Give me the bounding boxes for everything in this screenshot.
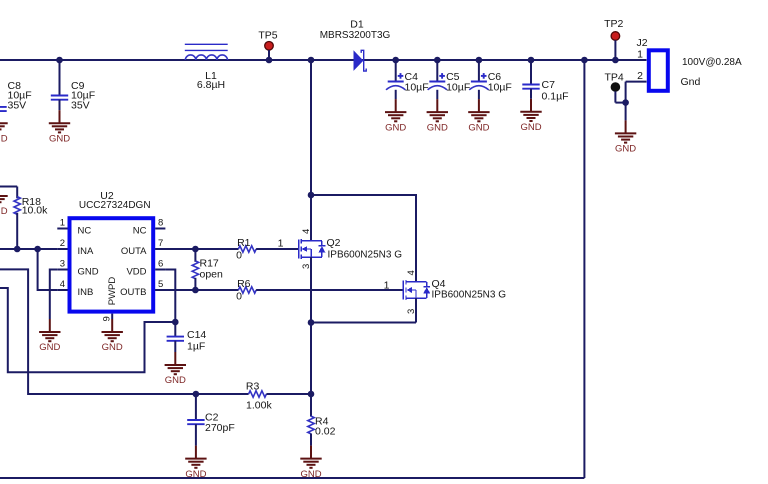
ground for C4 — [385, 99, 406, 133]
svg-text:10.0k: 10.0k — [22, 205, 48, 217]
ground for C5 — [427, 99, 448, 133]
svg-text:3: 3 — [60, 259, 65, 270]
wire R18 top to left edge — [0, 186, 17, 188]
svg-text:2: 2 — [60, 238, 65, 249]
ground for U2 pin 9 — [102, 319, 123, 353]
wire Q4 drain branch — [311, 195, 416, 282]
capacitor C2 — [187, 394, 235, 446]
capacitor C9 — [51, 60, 95, 111]
junction dot sense node — [308, 391, 315, 398]
svg-text:J2: J2 — [637, 37, 648, 49]
svg-text:0: 0 — [236, 291, 242, 303]
wire R6 to Q4 gate — [256, 289, 403, 291]
svg-text:1: 1 — [278, 238, 284, 250]
wire INA to INB — [38, 249, 58, 290]
svg-text:270pF: 270pF — [205, 422, 235, 434]
svg-text:C14: C14 — [187, 329, 206, 341]
wire VDD to left edge — [0, 288, 175, 372]
svg-text:OUTB: OUTB — [120, 287, 146, 298]
wire Q2 source — [310, 257, 312, 323]
wire source rail — [311, 322, 416, 324]
svg-text:1: 1 — [384, 280, 390, 292]
svg-text:6: 6 — [158, 259, 163, 270]
junction dot source rail — [308, 319, 315, 326]
svg-text:2: 2 — [637, 70, 643, 82]
svg-text:4: 4 — [60, 279, 65, 290]
transistor Q2 — [299, 229, 403, 269]
wire feedback from left edge — [0, 269, 249, 394]
svg-text:OUTA: OUTA — [121, 246, 147, 257]
svg-text:INA: INA — [78, 246, 95, 257]
junction dot INA/INB — [34, 246, 41, 253]
ground for C2 — [185, 446, 206, 480]
resistor R6 — [236, 278, 256, 303]
svg-text:10µF: 10µF — [488, 82, 512, 94]
op-amp driver U2 UCC27324DGN — [57, 190, 165, 322]
svg-text:open: open — [200, 269, 224, 281]
wire J2 pin2 to ground — [625, 82, 627, 121]
test point TP4 — [605, 72, 626, 103]
svg-text:0.02: 0.02 — [315, 425, 336, 437]
resistor R4 — [308, 394, 336, 446]
ground for R4 — [300, 446, 321, 480]
inductor L1 — [185, 44, 228, 91]
junction dot return rail — [581, 57, 588, 64]
junction dot C2 node — [193, 391, 200, 398]
ground for C9 — [49, 110, 70, 144]
svg-text:IPB600N25N3 G: IPB600N25N3 G — [328, 250, 403, 261]
resistor R1 — [236, 237, 256, 262]
svg-text:R1: R1 — [237, 237, 251, 249]
svg-text:IPB600N25N3 G: IPB600N25N3 G — [432, 290, 507, 301]
resistor R18 — [14, 187, 48, 250]
svg-text:9: 9 — [101, 316, 112, 321]
junction dot drain branch — [308, 192, 315, 199]
svg-text:MBRS3200T3G: MBRS3200T3G — [320, 30, 391, 41]
svg-text:PWPD: PWPD — [107, 277, 118, 306]
resistor R17 — [192, 249, 223, 290]
svg-text:5: 5 — [158, 279, 163, 290]
svg-text:TP5: TP5 — [258, 30, 277, 42]
capacitor C5 — [428, 60, 471, 99]
capacitor C7 — [522, 60, 568, 103]
ground for C14 — [165, 352, 186, 386]
ground at left edge near R18 — [0, 183, 8, 217]
wire J2 pin2 — [626, 81, 647, 83]
junction dot OUTB/R17 — [192, 287, 199, 294]
test point TP2 — [604, 18, 623, 60]
junction dot TP4 — [622, 99, 629, 106]
capacitor C4 — [386, 60, 429, 99]
svg-text:D1: D1 — [350, 19, 364, 31]
svg-text:1.00k: 1.00k — [246, 399, 272, 411]
ground for C8 — [0, 110, 8, 144]
svg-text:1: 1 — [60, 218, 65, 229]
svg-text:NC: NC — [78, 226, 92, 237]
wire OUTB net — [155, 289, 238, 291]
wire Q4 source — [415, 298, 417, 323]
junction dot switch node — [308, 57, 315, 64]
svg-text:C7: C7 — [542, 79, 556, 91]
ground for C7 — [520, 99, 541, 133]
svg-text:0: 0 — [236, 250, 242, 262]
wire INA net — [0, 248, 57, 250]
svg-text:UCC27324DGN: UCC27324DGN — [79, 200, 151, 211]
wire R3 to sense node — [266, 393, 311, 395]
svg-text:7: 7 — [158, 238, 163, 249]
svg-text:TP2: TP2 — [604, 18, 623, 30]
ground for U2 pin 3 — [39, 319, 60, 353]
junction dot C7 — [528, 57, 535, 64]
svg-text:NC: NC — [133, 226, 147, 237]
svg-text:Q4: Q4 — [432, 278, 446, 290]
svg-text:Q2: Q2 — [327, 237, 341, 249]
svg-text:8: 8 — [158, 218, 163, 229]
resistor R3 — [246, 381, 273, 412]
svg-text:R6: R6 — [237, 278, 251, 290]
junction dot C6 — [476, 57, 483, 64]
wire sense node vertical — [310, 323, 312, 395]
wire bottom return rail — [0, 477, 584, 479]
wire main output rail — [0, 59, 647, 61]
ground for J2 — [615, 120, 636, 154]
junction dot C5 — [434, 57, 441, 64]
capacitor C6 — [469, 60, 512, 99]
svg-text:100V@0.28A: 100V@0.28A — [682, 57, 742, 68]
svg-text:TP4: TP4 — [605, 72, 624, 84]
svg-text:INB: INB — [78, 287, 94, 298]
svg-text:4: 4 — [406, 270, 417, 275]
svg-text:0.1µF: 0.1µF — [542, 91, 569, 103]
transistor Q4 — [403, 270, 506, 314]
junction dot C9 — [56, 57, 63, 64]
junction dot C4 — [392, 57, 399, 64]
svg-text:10µF: 10µF — [405, 82, 429, 94]
svg-text:GND: GND — [78, 267, 99, 278]
svg-text:4: 4 — [301, 229, 312, 234]
wire VDD net — [165, 270, 175, 323]
diode D1 — [320, 19, 391, 72]
svg-text:1µF: 1µF — [187, 341, 205, 353]
junction dot VDD/C14 — [172, 319, 179, 326]
svg-text:Gnd: Gnd — [681, 76, 701, 88]
svg-text:35V: 35V — [71, 99, 90, 111]
svg-text:1: 1 — [637, 49, 643, 61]
svg-text:VDD: VDD — [126, 267, 146, 278]
capacitor C8 (clipped at left edge) — [0, 60, 32, 111]
wire OUTA net — [155, 248, 238, 250]
wire R1 to Q2 gate — [256, 248, 299, 250]
junction dot TP5 — [266, 57, 273, 64]
wire GND pin 3 — [50, 270, 58, 320]
wire output return vertical — [583, 60, 585, 478]
junction dot OUTA/R17 — [192, 246, 199, 253]
wire switch node vertical — [310, 60, 312, 241]
ground for C6 — [468, 99, 489, 133]
svg-text:35V: 35V — [8, 99, 27, 111]
junction dot TP2 — [612, 57, 619, 64]
svg-text:R3: R3 — [246, 381, 260, 393]
svg-text:6.8µH: 6.8µH — [197, 79, 225, 91]
capacitor C14 — [167, 322, 207, 353]
test point TP5 — [258, 30, 277, 61]
connector J2 — [637, 37, 742, 91]
junction dot R18/INA — [14, 246, 21, 253]
svg-text:10µF: 10µF — [446, 82, 470, 94]
